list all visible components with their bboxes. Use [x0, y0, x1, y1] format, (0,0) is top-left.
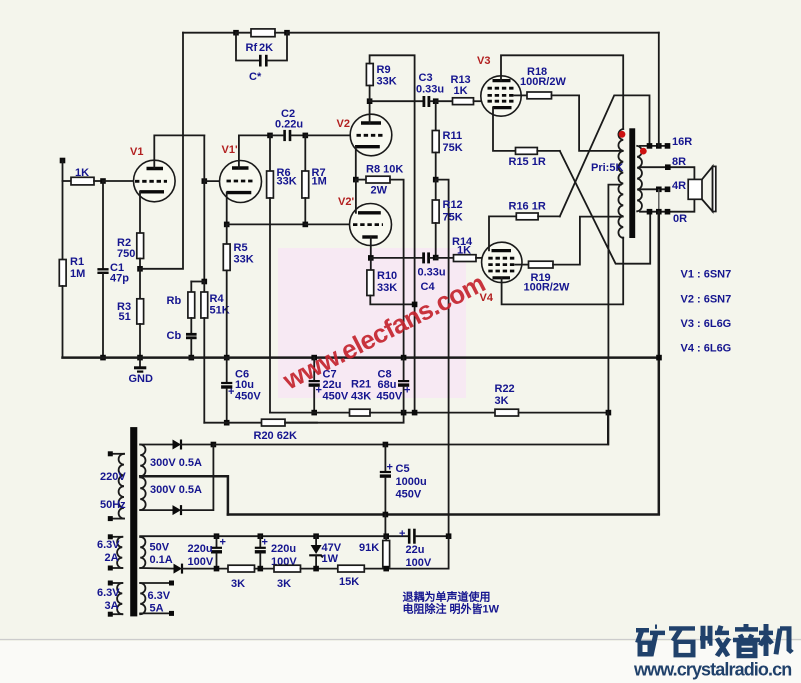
svg-text:V3: V3: [477, 55, 490, 67]
resistor R19: [515, 264, 528, 266]
svg-text:450V: 450V: [377, 391, 403, 403]
wire ground column 0R to bus and return line: [658, 212, 661, 514]
capacitor C6: [226, 358, 228, 382]
svg-text:33K: 33K: [277, 176, 297, 188]
capacitor C7: [311, 355, 317, 361]
node R8 C8 ground: [401, 355, 407, 361]
wire V1 plate down to V1' grid: [203, 135, 205, 181]
resistor Rb: [190, 282, 192, 293]
svg-text:V3 : 6L6G: V3 : 6L6G: [681, 318, 732, 330]
svg-text:R8 10K: R8 10K: [366, 164, 403, 176]
transformer PT HV winding lower 300V: [140, 477, 145, 510]
wire 0R tap to speaker return: [640, 199, 694, 211]
svg-text:+: +: [399, 528, 405, 540]
svg-text:100R/2W: 100R/2W: [520, 76, 566, 88]
wire R22 right to B+ node: [519, 412, 609, 414]
wire line A right to jog: [285, 413, 404, 423]
svg-text:V2 : 6SN7: V2 : 6SN7: [681, 293, 732, 305]
svg-text:0R: 0R: [673, 213, 687, 225]
resistor R9: [366, 64, 373, 86]
wire V2' cathode down: [370, 237, 372, 258]
wire V2 cathode down: [355, 147, 357, 180]
wire V2' plate up to R8 node: [355, 180, 357, 213]
svg-text:6.3V: 6.3V: [97, 539, 120, 551]
wire R4 down to line A: [203, 318, 205, 423]
svg-text:1K: 1K: [457, 245, 471, 257]
node C3 right: [433, 98, 439, 104]
svg-text:V2': V2': [338, 196, 354, 208]
wire HV top lead: [140, 444, 172, 446]
tube V1: [134, 160, 176, 202]
node input terminal: [60, 158, 66, 164]
wire top rail: [183, 32, 236, 34]
svg-text:+: +: [220, 537, 226, 549]
wire V1' cathode down: [226, 193, 228, 225]
svg-text:100R/2W: 100R/2W: [524, 282, 570, 294]
wire Rf right to node: [275, 32, 287, 34]
transformer OT core: [629, 128, 635, 238]
tube V4: [482, 242, 522, 282]
svg-text:R21: R21: [351, 379, 371, 391]
wire line B left end from R6: [270, 412, 350, 414]
wire V2' grid: [305, 223, 350, 225]
wire R6 down to line B: [269, 198, 271, 413]
svg-text:4R: 4R: [672, 180, 686, 192]
svg-text:0.33u: 0.33u: [416, 84, 444, 96]
svg-text:R12: R12: [443, 199, 463, 211]
wire HV center tap: [140, 476, 228, 514]
glyph ji: [759, 624, 792, 656]
svg-text:1000u: 1000u: [396, 476, 427, 488]
svg-text:R1: R1: [70, 256, 84, 268]
node B+ column line B: [412, 410, 418, 416]
glyph kuang: [636, 627, 665, 656]
resistor R1: [62, 181, 64, 260]
svg-text:100V: 100V: [188, 556, 214, 568]
svg-text:3K: 3K: [495, 395, 509, 407]
resistor R11: [435, 101, 437, 130]
wire diagonal V3 cathode to 0R path: [560, 151, 650, 264]
resistor 3K first: [228, 565, 255, 572]
resistor R14: [436, 257, 454, 259]
node phase dot primary: [619, 131, 626, 138]
svg-text:V2: V2: [337, 118, 350, 130]
node V1 grid junction: [100, 178, 106, 184]
ground GND symbol: [139, 358, 141, 367]
svg-text:100V: 100V: [406, 557, 432, 569]
svg-text:0.22u: 0.22u: [275, 119, 303, 131]
svg-text:+: +: [404, 385, 410, 397]
svg-text:22u: 22u: [406, 544, 425, 556]
transformer PT 6.3V 5A winding: [140, 583, 145, 614]
capacitor C5: [383, 442, 389, 448]
resistor R20: [262, 419, 286, 426]
node R10 B+ column: [412, 302, 418, 308]
svg-text:6.3V: 6.3V: [97, 587, 120, 599]
node R2 R3 feedback: [137, 266, 143, 272]
wire 1K to grid node: [94, 180, 103, 182]
capacitor C3: [422, 96, 425, 107]
wire midpoint to bias-loop column: [436, 180, 449, 537]
wire R9 top to B+ column: [370, 55, 415, 412]
svg-text:C5: C5: [396, 463, 410, 475]
wire R13 to V3 grid: [474, 100, 484, 102]
wire plate row to C3: [370, 100, 422, 102]
svg-text:3K: 3K: [231, 578, 245, 590]
node Cb ground: [189, 355, 195, 361]
svg-text:1M: 1M: [70, 268, 85, 280]
resistor R21: [350, 409, 371, 416]
wire R19 right to UL tap: [553, 217, 623, 265]
capacitor C8: [403, 358, 405, 380]
node C5 ground return: [383, 512, 389, 518]
resistor R3: [139, 269, 141, 299]
transformer OT primary winding: [618, 129, 623, 238]
svg-text:220u: 220u: [271, 543, 296, 555]
tube V3: [481, 76, 521, 116]
transformer PT 6.3V 3A winding: [110, 582, 122, 584]
svg-text:R10: R10: [377, 270, 397, 282]
wire D2 up to rectifier node: [181, 445, 213, 511]
logo crystalradio: [636, 624, 792, 656]
node V2 plate R9: [367, 98, 373, 104]
wire cathode row to C4: [371, 257, 423, 259]
svg-text:75K: 75K: [443, 212, 463, 224]
svg-text:GND: GND: [129, 373, 154, 385]
wire R12 down to C4 node: [435, 223, 437, 258]
svg-text:22u: 22u: [323, 379, 342, 391]
svg-text:退耦为单声道使用: 退耦为单声道使用: [403, 590, 491, 604]
resistor R12: [435, 180, 437, 200]
node Rf left: [233, 30, 239, 36]
resistor R8: [356, 179, 366, 181]
svg-text:450V: 450V: [396, 489, 422, 501]
svg-text:50Hz: 50Hz: [100, 499, 126, 511]
svg-text:220V: 220V: [100, 471, 126, 483]
tube V2: [350, 114, 392, 156]
wire R3 to ground bus: [139, 324, 141, 358]
transformer PT 50V winding: [140, 537, 145, 568]
wire to V2 grid: [305, 134, 351, 136]
capacitor 220u second: [258, 533, 264, 539]
node C1 ground: [100, 355, 106, 361]
wire 4R tap: [640, 188, 668, 190]
svg-text:450V: 450V: [235, 391, 261, 403]
wire R16 right to diagonal: [538, 215, 560, 217]
zener diode 47V: [313, 533, 319, 539]
svg-text:50V: 50V: [150, 542, 170, 554]
capacitor C1: [102, 181, 104, 268]
svg-text:15K: 15K: [339, 576, 359, 588]
resistor R7: [304, 135, 306, 171]
wire bias ground riser: [384, 515, 386, 537]
wire 16R tap: [640, 145, 668, 147]
wire ground return line: [228, 513, 659, 516]
glyph shou: [700, 626, 729, 656]
svg-text:+: +: [387, 462, 393, 474]
wire bias top rail: [140, 535, 408, 538]
resistor 15K: [338, 565, 365, 572]
resistor R18: [515, 94, 528, 96]
svg-text:6.3V: 6.3V: [148, 590, 171, 602]
wire to 91K bottom: [364, 568, 448, 570]
svg-text:51: 51: [119, 311, 131, 323]
svg-text:1K: 1K: [454, 85, 468, 97]
svg-text:R22: R22: [495, 383, 515, 395]
svg-text:R11: R11: [443, 130, 463, 142]
wire 50V bottom to D3: [140, 567, 173, 570]
node C4 right: [433, 255, 439, 261]
svg-text:300V 0.5A: 300V 0.5A: [150, 457, 202, 469]
wire R8 right down to ground bus: [390, 180, 404, 358]
svg-text:33K: 33K: [377, 282, 397, 294]
svg-text:3K: 3K: [277, 578, 291, 590]
node V1' grid / V1 plate: [202, 178, 208, 184]
svg-text:R16 1R: R16 1R: [509, 201, 546, 213]
resistor 1K (grid stopper): [71, 177, 94, 185]
svg-text:R4: R4: [210, 293, 225, 305]
capacitor 220u first: [214, 533, 220, 539]
wire R10 down to B+ column: [370, 296, 414, 305]
wire V4 cathode up to R16: [489, 216, 516, 250]
svg-text:2K: 2K: [259, 42, 273, 54]
resistor R13: [436, 100, 453, 102]
svg-text:Cb: Cb: [167, 330, 182, 342]
svg-text:8R: 8R: [672, 156, 686, 168]
svg-text:V1 : 6SN7: V1 : 6SN7: [681, 269, 732, 281]
wire V4 plate down over to primary bottom: [502, 238, 624, 305]
wire to second cap: [255, 568, 275, 570]
transformer PT primary 220V: [110, 453, 124, 455]
wire grid node down to Rb R4: [203, 181, 205, 281]
transformer PT 6.3V 2A winding: [110, 536, 122, 538]
wire V1 grid: [103, 180, 135, 182]
svg-text:1M: 1M: [312, 176, 327, 188]
wire V3 cathode down to R15: [493, 108, 516, 151]
svg-text:750: 750: [117, 248, 135, 260]
svg-text:16R: 16R: [672, 136, 692, 148]
svg-text:Rf: Rf: [246, 42, 258, 54]
node rectifier output: [211, 442, 217, 448]
tube V2': [350, 204, 392, 246]
svg-text:Pri:5K: Pri:5K: [591, 162, 623, 174]
wire NFB column 16R to top rail: [658, 33, 660, 146]
wire cathode row to V2' grid: [227, 223, 306, 225]
wire HV bottom lead: [140, 509, 172, 511]
wire D1 to B+ node: [181, 444, 213, 446]
svg-text:0.33u: 0.33u: [418, 267, 446, 279]
svg-text:1K: 1K: [75, 167, 89, 179]
wire 8R tap to speaker: [640, 167, 694, 179]
svg-text:R9: R9: [377, 64, 391, 76]
svg-text:+: +: [262, 537, 268, 549]
svg-text:300V 0.5A: 300V 0.5A: [150, 484, 202, 496]
node R11 R12 midpoint: [435, 153, 437, 180]
svg-text:V1: V1: [130, 146, 143, 158]
wire V1 cathode down: [139, 192, 141, 233]
wire OT primary center tap to B+ column: [608, 185, 621, 445]
resistor 91K: [383, 533, 389, 539]
wire V1 plate up and over: [154, 135, 204, 168]
svg-text:68u: 68u: [378, 379, 397, 391]
svg-text:C3: C3: [419, 72, 433, 84]
wire bias bottom rail: [182, 568, 228, 570]
resistor R10: [370, 258, 372, 270]
svg-text:33K: 33K: [377, 76, 397, 88]
svg-text:0.1A: 0.1A: [150, 554, 173, 566]
wire input row to 1K: [63, 180, 72, 182]
node R3 ground: [137, 355, 143, 361]
wire R1 to ground bus: [62, 286, 64, 358]
svg-text:43K: 43K: [351, 391, 371, 403]
svg-text:75K: 75K: [443, 142, 463, 154]
svg-text:www.crystalradio.cn: www.crystalradio.cn: [633, 660, 791, 680]
resistor Rf: [236, 32, 251, 34]
resistor R2: [137, 233, 144, 259]
svg-text:C*: C*: [249, 71, 262, 83]
svg-text:V4 : 6L6G: V4 : 6L6G: [681, 343, 732, 355]
wire R18 right to UL tap: [552, 95, 623, 150]
wire V1' grid into tube: [204, 180, 221, 182]
diode D1: [173, 440, 182, 450]
resistor R16: [516, 213, 538, 220]
svg-text:3A: 3A: [105, 600, 119, 612]
wire feedback column from Rf loop: [140, 33, 183, 269]
svg-text:V1': V1': [222, 144, 238, 156]
wire R2 to node: [139, 259, 141, 269]
glyph shi: [669, 628, 695, 655]
wire V3 plate up over to primary top: [501, 55, 623, 129]
resistor R5: [226, 224, 228, 244]
svg-text:10u: 10u: [235, 379, 254, 391]
wire 4R to 0R link and ground column: [658, 189, 660, 211]
svg-text:2W: 2W: [371, 185, 388, 197]
wire bias loop right edge: [448, 536, 450, 568]
node Rb R4 top: [202, 279, 208, 285]
capacitor C2: [283, 130, 286, 141]
svg-text:2A: 2A: [105, 552, 119, 564]
svg-text:+: +: [228, 386, 234, 398]
glyph yin: [733, 624, 760, 656]
svg-text:33K: 33K: [234, 254, 254, 266]
resistor R15: [516, 148, 538, 155]
svg-text:47p: 47p: [110, 273, 129, 285]
transformer OT secondary winding: [637, 146, 642, 211]
svg-text:Rb: Rb: [167, 295, 182, 307]
svg-text:R5: R5: [234, 242, 248, 254]
node V1' cathode R5: [224, 222, 230, 228]
node R7 bottom: [303, 222, 309, 228]
node Rf right: [284, 30, 290, 36]
wire to zener: [301, 568, 338, 570]
node C7 line B: [311, 410, 317, 416]
resistor R4: [203, 282, 205, 293]
wire Rb R4 top link: [191, 281, 204, 283]
wire diagonal V4 cathode to 16R path: [560, 95, 650, 216]
node R22 CT column: [606, 410, 612, 416]
resistor R6: [269, 135, 271, 171]
svg-text:R20 62K: R20 62K: [254, 430, 297, 442]
svg-text:电阻除注 明外皆1W: 电阻除注 明外皆1W: [403, 602, 500, 616]
capacitor C*: [236, 33, 259, 61]
diode D2: [173, 505, 182, 515]
transformer PT core: [130, 427, 137, 616]
wire top rail continues: [287, 32, 659, 34]
resistor 3K second: [274, 565, 301, 572]
resistor R22: [495, 409, 519, 416]
node R5 ground: [224, 355, 230, 361]
node C2 right R7 top: [303, 133, 309, 139]
wire R14 to V4 grid: [476, 257, 484, 259]
transformer PT HV winding upper 300V: [140, 445, 145, 477]
wire R7 down to V2' grid row: [304, 198, 306, 224]
tube V1': [220, 161, 262, 203]
capacitor 22u series: [408, 529, 411, 544]
node bias loop corner: [446, 533, 452, 539]
capacitor Cb: [190, 318, 192, 333]
wire line B to R22: [370, 412, 495, 414]
svg-text:91K: 91K: [359, 542, 379, 554]
capacitor C4: [422, 252, 425, 263]
wire V2 plate up: [369, 101, 371, 123]
node phase dot secondary: [640, 148, 647, 155]
svg-text:1W: 1W: [322, 553, 339, 565]
diode D3: [174, 564, 183, 574]
svg-text:R15 1R: R15 1R: [509, 156, 546, 168]
node V2' cathode C4: [368, 255, 374, 261]
wire line A: [204, 422, 317, 424]
wire B+ line: [213, 413, 608, 445]
wire ground bus: [63, 356, 660, 359]
node C2 left: [267, 133, 273, 139]
svg-text:5A: 5A: [150, 603, 164, 615]
node V2 cathode R8: [353, 177, 359, 183]
node C6 line A: [224, 420, 230, 426]
wire R5 to ground bus: [226, 270, 228, 357]
wire R15 right to diagonal: [537, 150, 560, 152]
svg-text:+: +: [316, 385, 322, 397]
wire V1' plate up to C2 row: [239, 135, 270, 168]
svg-text:220u: 220u: [188, 543, 213, 555]
node C8 line B: [401, 410, 407, 416]
speaker: [688, 179, 702, 199]
wire input stub down: [62, 161, 64, 182]
svg-text:450V: 450V: [323, 391, 349, 403]
